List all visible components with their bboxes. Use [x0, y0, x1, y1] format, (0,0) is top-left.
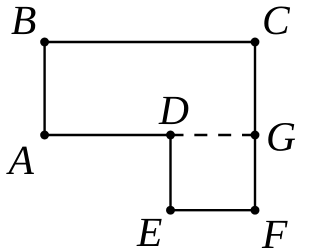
wire EF — [171, 209, 256, 211]
label D — [159, 97, 189, 124]
node F — [251, 206, 260, 215]
node B — [40, 38, 49, 47]
wire AD — [45, 134, 171, 136]
label E — [137, 219, 162, 246]
node C — [251, 38, 260, 47]
label B — [11, 7, 35, 34]
wire BC — [45, 41, 255, 43]
wire CF — [254, 42, 256, 210]
wire BA — [43, 42, 45, 135]
label F — [262, 221, 288, 248]
wire DE — [169, 135, 171, 210]
node G — [251, 131, 260, 140]
node E — [166, 206, 175, 215]
label A — [6, 147, 34, 174]
label G — [268, 123, 295, 151]
label C — [264, 7, 290, 35]
node D — [166, 131, 175, 140]
node A — [40, 131, 49, 140]
wire DG dashed — [171, 134, 256, 136]
